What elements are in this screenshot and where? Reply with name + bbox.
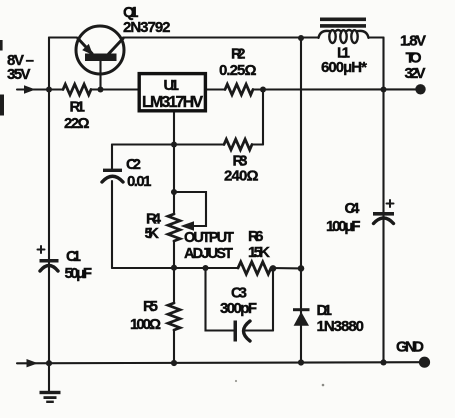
svg-text:32V: 32V (405, 65, 426, 82)
svg-text:LM317HV: LM317HV (142, 94, 203, 111)
svg-text:C3: C3 (231, 285, 247, 302)
svg-text:0.25Ω: 0.25Ω (219, 62, 257, 79)
svg-text:GND: GND (396, 339, 424, 356)
svg-text:0.01: 0.01 (127, 173, 152, 190)
svg-text:C1: C1 (66, 248, 81, 265)
svg-text:100μF: 100μF (326, 218, 361, 235)
svg-text:TO: TO (406, 50, 422, 67)
svg-text:600μH*: 600μH* (321, 59, 367, 76)
svg-text:1N3880: 1N3880 (317, 318, 365, 335)
svg-text:D1: D1 (317, 302, 333, 319)
svg-text:300pF: 300pF (220, 300, 257, 317)
svg-text:U1: U1 (164, 77, 180, 94)
svg-text:2N3792: 2N3792 (123, 19, 171, 36)
svg-text:R2: R2 (231, 46, 246, 63)
svg-text:OUTPUT: OUTPUT (184, 230, 234, 246)
svg-text:C4: C4 (345, 200, 361, 217)
svg-text:ADJUST: ADJUST (184, 246, 233, 262)
svg-text:R1: R1 (70, 99, 86, 116)
svg-text:100Ω: 100Ω (130, 316, 161, 333)
svg-text:C2: C2 (126, 156, 141, 173)
svg-text:R6: R6 (248, 228, 264, 245)
svg-text:15K: 15K (248, 244, 270, 261)
svg-text:240Ω: 240Ω (224, 168, 259, 185)
svg-text:22Ω: 22Ω (64, 115, 90, 132)
svg-text:R5: R5 (143, 298, 158, 315)
svg-text:50μF: 50μF (65, 265, 93, 282)
svg-text:5K: 5K (145, 225, 160, 242)
svg-text:1.8V: 1.8V (400, 33, 426, 50)
svg-text:35V: 35V (7, 66, 31, 83)
